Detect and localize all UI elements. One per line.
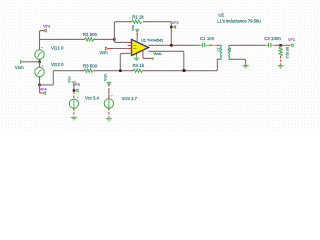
svg-text:L1's inductance 79.58u: L1's inductance 79.58u [217,18,261,23]
resistor R1 leads [128,21,147,23]
wire secondary top to C2 [233,44,263,46]
voltage pin VF3 arrow [44,29,47,32]
net terminal Vocm tick [107,81,112,83]
svg-text:VG2 0: VG2 0 [51,62,64,67]
svg-text:VG1 0: VG1 0 [51,46,64,51]
svg-text:R3 500: R3 500 [83,63,98,68]
wire VF3 stub and left rail top corner [40,31,44,40]
resistor R2 leads [82,38,97,40]
transformer U2 secondary L2 [228,45,230,46]
ground below R5 [280,64,282,67]
ground below op-amp VS- [136,54,138,55]
capacitor C2 [269,43,271,47]
svg-text:C1 10n: C1 10n [200,36,215,41]
wire VF4 stub [40,85,42,93]
node junction Vcm tee [38,61,41,64]
wire OUT+ row y=45.3 [149,44,151,46]
svg-text:VF1: VF1 [288,38,295,42]
voltage pin VF4 arrow [43,91,46,94]
plus mark VG2 [42,65,44,67]
voltage pin Vout- tick [152,57,154,60]
capacitor C1 leads [197,44,200,46]
svg-text:VF2: VF2 [172,21,179,25]
node junction VG2 bottom [38,84,41,87]
voltage pin VF5 [73,89,75,91]
net terminal Vs+ tick [72,81,77,83]
op-amp pin terminal ticks [131,41,133,54]
wire VS1 top [73,84,75,91]
svg-text:VF4: VF4 [40,88,47,92]
svg-text:R1 1k: R1 1k [132,14,144,19]
svg-text:Vcc 5.4: Vcc 5.4 [85,96,100,101]
wire IN- jog into op-amp [114,39,127,42]
ground below VOCM [108,117,110,120]
transformer U2 primary L1 [217,44,220,46]
wire R1 to VF2 corner and down to output node [147,22,171,46]
voltage pin VF2 [170,26,172,28]
plus mark VS1 [77,97,79,99]
wire R2 input row y=39.4 [40,38,83,40]
svg-text:VF3: VF3 [43,25,50,29]
svg-text:U1 THS4541: U1 THS4541 [141,37,163,42]
svg-text:C2 100n: C2 100n [264,36,281,41]
svg-text:Vcm: Vcm [15,65,24,70]
wire R3/R4 lower rail y=70.7 [53,70,81,72]
node junction IN+ tee [119,70,122,73]
svg-text:Vout-: Vout- [153,52,162,56]
voltage pin VF1 [288,44,290,46]
wire L to R3 row [40,71,54,85]
plus mark VOCM [111,95,113,97]
source VS1 [73,92,75,99]
wire Vcm stub [24,61,39,63]
svg-text:L1: L1 [216,48,220,52]
wire IN+ corner into op-amp [120,53,127,70]
resistor R1 [132,20,142,23]
source VOCM (Vocm 2.7) [108,84,110,89]
pin VS+ wire above op-amp [136,34,138,43]
svg-text:Vcm: Vcm [103,74,107,81]
wire vertical feedback x=114.4 up to R1 row [114,22,128,40]
resistor R4 [133,69,142,72]
ground below transformer [245,64,247,66]
wire secondary bottom to ground [233,59,245,62]
ground below VS1 [73,115,75,118]
voltage pin Vs+ arrow (down) [136,29,139,32]
svg-text:Vcc: Vcc [131,25,135,31]
source VG1 [39,39,41,46]
svg-text:VF5: VF5 [73,83,80,87]
wire OUT- down pin to Vout- probe [142,50,144,53]
op-amp pin marks inside [133,46,137,49]
source VG2 [39,62,41,64]
resistor R5 vertical [280,45,282,47]
node junction output/R1 [170,44,173,47]
node junction at IN- tee [113,38,116,41]
svg-text:L2: L2 [228,48,232,52]
pin PD stub [128,45,132,47]
node junction R4/OUT- [183,69,186,72]
svg-text:R4 1k: R4 1k [133,63,145,68]
plus mark VG1 [41,47,43,49]
node junction C2/R5 [279,44,282,47]
svg-text:Vcc: Vcc [67,76,71,82]
wire OUT- feedback to lower rail [148,50,150,52]
voltage pin Vocm arrow [105,47,108,50]
svg-text:R5 52.3: R5 52.3 [285,47,289,59]
resistor R2 [85,38,94,41]
voltage pin Vcm tick [20,60,22,64]
op-amp U1 THS4541 [132,39,149,55]
wire VOCM into op-amp [108,48,128,50]
capacitor C1 [202,43,204,47]
svg-text:R2 500: R2 500 [83,32,98,37]
svg-text:Vcm: Vcm [99,50,108,55]
svg-text:Vcm 2.7: Vcm 2.7 [122,96,138,101]
resistor R3 [84,69,93,72]
svg-text:U2: U2 [218,12,224,17]
